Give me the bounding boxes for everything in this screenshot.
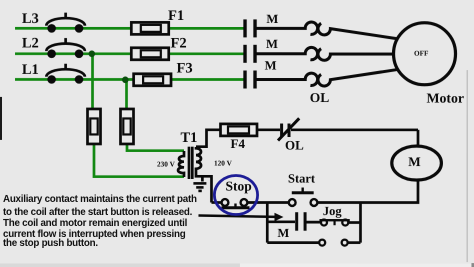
svg-text:T1: T1 [180, 130, 197, 146]
svg-text:M: M [265, 58, 277, 72]
svg-text:L2: L2 [22, 35, 39, 51]
svg-text:OL: OL [285, 137, 304, 152]
svg-text:M: M [408, 154, 421, 169]
svg-text:Stop: Stop [225, 178, 251, 193]
svg-text:230 V: 230 V [157, 159, 176, 168]
svg-text:120 V: 120 V [214, 158, 233, 167]
svg-text:OL: OL [310, 90, 330, 105]
svg-text:OFF: OFF [414, 50, 429, 58]
svg-text:M: M [277, 226, 289, 240]
svg-text:F2: F2 [171, 35, 187, 51]
svg-text:F3: F3 [177, 60, 193, 76]
svg-text:L3: L3 [22, 11, 39, 27]
svg-text:F4: F4 [230, 136, 245, 151]
svg-text:L1: L1 [22, 62, 39, 78]
svg-text:M: M [266, 12, 278, 26]
svg-text:Motor: Motor [427, 91, 465, 106]
svg-text:F1: F1 [168, 8, 184, 24]
svg-text:M: M [266, 37, 278, 51]
svg-text:Jog: Jog [323, 204, 343, 218]
svg-text:Start: Start [288, 172, 316, 186]
